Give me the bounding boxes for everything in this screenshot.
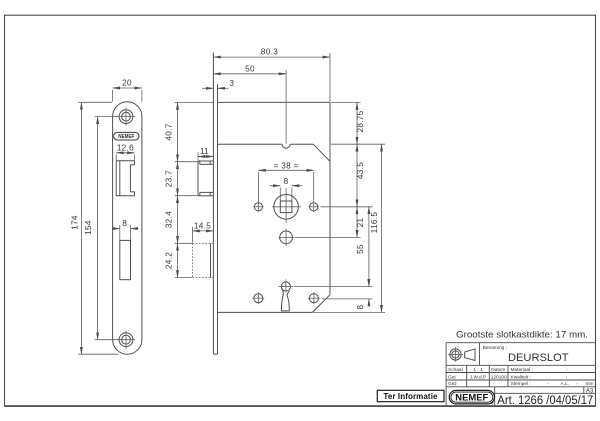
- spindle follower: [272, 188, 301, 223]
- svg-text:23.7: 23.7: [164, 170, 173, 187]
- keyhole: [279, 279, 294, 311]
- lock case step line with notch: [218, 144, 386, 161]
- svg-text:3: 3: [229, 79, 234, 88]
- svg-text:55: 55: [356, 244, 365, 254]
- right side extension lines: [294, 102, 373, 299]
- lock case bottom chamfer: [312, 295, 330, 313]
- svg-text:14.5: 14.5: [194, 221, 211, 230]
- dimension 43.5: [356, 144, 365, 207]
- dimension 80.3: [213, 48, 330, 102]
- svg-text:8: 8: [284, 177, 289, 186]
- svg-text:mm: mm: [586, 382, 594, 387]
- svg-text:Kwaliteit :: Kwaliteit :: [511, 374, 532, 380]
- dimension 8 (keyhole to bottom): [356, 279, 369, 309]
- dimension 28.75: [356, 102, 365, 144]
- svg-text:NEMEF: NEMEF: [118, 134, 134, 140]
- svg-text:Ter Informatie: Ter Informatie: [383, 392, 438, 401]
- Ter Informatie box: [377, 390, 444, 401]
- benaming label: [483, 345, 507, 351]
- handle screw hole right: [309, 202, 319, 213]
- svg-text:40.7: 40.7: [164, 123, 173, 140]
- dimension 11 (latch height): [198, 147, 213, 161]
- svg-text:8: 8: [356, 304, 365, 309]
- case screw hole left: [252, 292, 264, 304]
- bottom screw hole: [117, 331, 135, 349]
- NEMEF logo on faceplate: [114, 132, 139, 140]
- dimension 21: [356, 207, 365, 238]
- lock case top edge: [175, 101, 330, 103]
- deadbolt slot (front view): [120, 240, 131, 279]
- svg-text:J.W.d.P: J.W.d.P: [470, 374, 487, 380]
- dimension 12.6: [116, 144, 134, 161]
- svg-text:24.2: 24.2: [164, 252, 173, 269]
- svg-text:12.6: 12.6: [117, 144, 134, 153]
- svg-text:®: ®: [491, 401, 494, 406]
- projection symbol: [448, 347, 475, 362]
- latch bolt (front view): [116, 161, 134, 196]
- svg-text:Materiaal :: Materiaal :: [511, 367, 533, 373]
- svg-text:Get: Get: [448, 374, 456, 380]
- dimension 3 (plate thickness): [202, 79, 234, 89]
- svg-text:20: 20: [122, 79, 132, 88]
- handle screw hole left: [253, 203, 263, 211]
- svg-text:DEURSLOT: DEURSLOT: [508, 352, 569, 364]
- dimension 55: [356, 207, 369, 287]
- top screw hole: [117, 107, 135, 125]
- svg-text:Schaal: Schaal: [448, 367, 463, 373]
- case screw hole right: [308, 292, 320, 304]
- svg-text:80.3: 80.3: [261, 48, 278, 57]
- svg-text:Stempel :: Stempel :: [511, 381, 531, 387]
- cylinder hole: [279, 229, 294, 246]
- dimension 38 (handle holes): [258, 161, 313, 211]
- row schaal / datum / materiaal: [448, 367, 568, 373]
- svg-text:A.L.: A.L.: [561, 381, 570, 387]
- NEMEF logo (title block): [449, 390, 494, 405]
- row gez / stempel: [448, 381, 594, 387]
- svg-text:154: 154: [84, 220, 93, 235]
- svg-text:Benaming :: Benaming :: [483, 345, 507, 351]
- dimension 116.5: [370, 144, 381, 312]
- svg-text:Datum: Datum: [491, 367, 505, 373]
- dimension chain 40.7 / 23.7 / 32.4 / 24.2: [164, 102, 197, 277]
- svg-text:Art. 1266 /04/05/17: Art. 1266 /04/05/17: [497, 395, 593, 407]
- row get / kwaliteit: [448, 374, 568, 380]
- title block grid: [446, 343, 595, 407]
- faceplate strip (side view): [213, 53, 217, 355]
- dimension 14.5 (deadbolt throw): [192, 221, 213, 242]
- deadbolt thrown (dashed, side view): [192, 243, 213, 277]
- svg-text:1 : 1: 1 : 1: [473, 367, 483, 373]
- latch bolt (side view): [198, 161, 213, 196]
- svg-text:8: 8: [122, 219, 127, 228]
- art number: [497, 395, 593, 407]
- A3 cell: [586, 388, 594, 394]
- svg-text:120100: 120100: [491, 374, 507, 380]
- note: grootste slotkastdikte: [456, 330, 588, 340]
- svg-text:A3: A3: [586, 388, 594, 394]
- dimension 154 (screw centres): [84, 117, 119, 340]
- dimension 174 (plate height): [70, 102, 118, 354]
- dimension 8 (spindle square): [270, 177, 303, 201]
- lock case right edge: [329, 102, 331, 294]
- faceplate outline (front view): [113, 102, 142, 354]
- svg-text:NEMEF: NEMEF: [455, 393, 488, 404]
- dimension 50: [213, 64, 286, 143]
- lock case bottom edge: [218, 311, 386, 313]
- svg-text:32.4: 32.4: [164, 211, 173, 228]
- svg-text:Grootste slotkastdikte: 17: Grootste slotkastdikte: 17 mm.: [456, 330, 588, 340]
- DEURSLOT title: [508, 352, 569, 364]
- dimension 8 (deadbolt slot width): [112, 219, 139, 240]
- svg-text:174: 174: [70, 215, 79, 230]
- svg-text:116.5: 116.5: [370, 212, 379, 234]
- svg-text:Gez: Gez: [448, 381, 457, 387]
- svg-text:= 38 =: = 38 =: [274, 161, 299, 170]
- svg-text:50: 50: [245, 64, 255, 73]
- dimension 20 (plate width): [113, 79, 142, 102]
- svg-text:11: 11: [200, 147, 209, 156]
